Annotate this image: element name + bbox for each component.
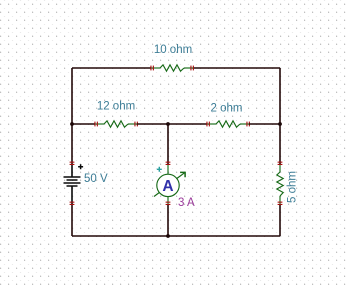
wire right vertical [279, 68, 281, 236]
svg-text:3 A: 3 A [178, 197, 195, 209]
svg-text:5 ohm: 5 ohm [287, 171, 299, 203]
wire ammeter branch [167, 124, 169, 236]
wire middle rail right [249, 123, 280, 125]
node left middle junction [70, 122, 74, 126]
node center middle junction [166, 122, 170, 126]
resistor 10 ohm [150, 65, 194, 71]
wire left vertical [71, 68, 73, 236]
svg-text:10 ohm: 10 ohm [154, 44, 192, 56]
ammeter A [154, 162, 185, 205]
resistor 5 ohm [277, 162, 283, 205]
svg-text:12 ohm: 12 ohm [97, 101, 135, 113]
wire middle rail left [72, 123, 95, 125]
resistor 12 ohm [94, 121, 138, 127]
node bottom junction [166, 234, 170, 238]
svg-text:50 V: 50 V [84, 173, 108, 185]
svg-text:2 ohm: 2 ohm [211, 103, 243, 115]
wire middle rail center [137, 123, 207, 125]
wire top: node TL to node TR [72, 67, 280, 69]
resistor 2 ohm [206, 121, 250, 127]
battery 50 V [64, 162, 84, 205]
svg-text:A: A [162, 178, 173, 195]
node right middle junction [278, 122, 282, 126]
wire bottom [72, 235, 280, 237]
